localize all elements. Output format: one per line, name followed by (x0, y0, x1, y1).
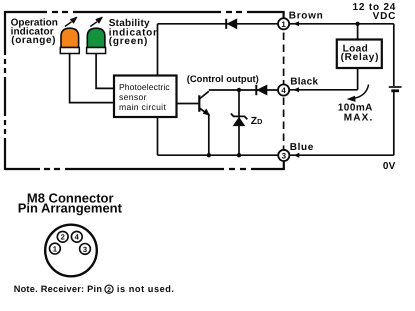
junction at load lead (355, 22, 359, 26)
svg-text:2: 2 (107, 287, 111, 294)
zener diode ZD (231, 88, 247, 158)
wire: black output line (289, 87, 357, 92)
sensor boundary: right stub from terminal 3 to bottom (283, 162, 285, 170)
svg-text:VDC: VDC (373, 11, 397, 22)
svg-text:1: 1 (281, 20, 286, 29)
wire: green LED lead (96, 54, 114, 89)
terminal 4 (278, 84, 289, 95)
M8 connector face (45, 225, 97, 277)
emitter wire down (208, 114, 210, 155)
svg-text:2: 2 (61, 233, 65, 242)
pin 1 (50, 243, 61, 254)
cathode bar with bent ends (231, 114, 247, 120)
wire: brown supply line (289, 21, 393, 26)
svg-text:ZD: ZD (251, 116, 263, 127)
connector dashed line terminal 4 to 3 (283, 98, 285, 150)
svg-text:Black: Black (290, 76, 318, 87)
wire: orange LED lead (70, 54, 114, 103)
wire: blue 0V line (290, 153, 394, 158)
arrowhead toward terminal 1 (293, 21, 299, 26)
emission arrow of green LED (90, 22, 97, 27)
transistor Q1 (NPN output) (177, 91, 212, 157)
note: Receiver: Pin 2 is not used. (14, 284, 175, 294)
svg-text:(green): (green) (109, 36, 149, 47)
svg-text:Blue: Blue (290, 142, 314, 153)
junction at control rail (237, 88, 241, 92)
junction at emitter/bottom rail (207, 153, 211, 157)
battery BT1 (389, 24, 402, 155)
svg-text:sensor: sensor (119, 92, 147, 102)
svg-text:4: 4 (281, 86, 286, 95)
terminal 3 (278, 150, 289, 161)
svg-text:3: 3 (83, 245, 87, 254)
svg-text:is not used.: is not used. (117, 284, 175, 294)
svg-text:3: 3 (282, 151, 287, 160)
sensor boundary: left chain line (4, 11, 6, 170)
base bar (198, 95, 200, 112)
sensor boundary: top chain line (5, 11, 285, 13)
sensor boundary: right stub to terminal 1 (283, 12, 285, 18)
svg-text:0V: 0V (383, 161, 396, 172)
terminal 1 (278, 18, 289, 29)
wire: inner bottom rail (158, 154, 280, 156)
pin 2 (57, 231, 68, 242)
LED stability indicator (green) (87, 17, 106, 53)
load (relay) box (337, 24, 382, 90)
diode D1 reverse-polarity protection on top rail (226, 19, 237, 29)
connector dashed line terminal 1 to 4 (283, 33, 285, 84)
anode triangle pointing up (233, 118, 244, 126)
svg-text:MAX.: MAX. (344, 113, 374, 124)
wire: inner top rail (158, 23, 279, 25)
arrowhead toward terminal 3 (294, 153, 300, 158)
current arrow 100mA (355, 85, 369, 99)
sensor boundary: bottom chain line (5, 168, 285, 170)
pin 3 (80, 244, 91, 255)
photoelectric sensor main circuit box (114, 76, 177, 118)
diode D2 on control output rail (256, 85, 267, 95)
svg-text:Photoelectric: Photoelectric (119, 82, 170, 92)
svg-text:Brown: Brown (289, 10, 324, 21)
arrowhead toward terminal 4 (293, 87, 299, 92)
wire: control output rail (209, 89, 278, 91)
svg-text:(Control output): (Control output) (187, 73, 259, 84)
svg-text:main circuit: main circuit (119, 102, 166, 112)
svg-text:Pin Arrangement: Pin Arrangement (18, 200, 123, 215)
base wire (177, 103, 200, 105)
svg-text:(Relay): (Relay) (341, 52, 380, 63)
wire: inner left rail upper (157, 24, 159, 76)
pin 4 (71, 231, 82, 242)
svg-text:Note. Receiver: Pin: Note. Receiver: Pin (14, 284, 103, 294)
LED operation indicator (orange) (60, 17, 79, 53)
emitter with arrow (199, 108, 209, 115)
junction at bottom rail (237, 153, 241, 157)
svg-text:(orange): (orange) (11, 35, 56, 46)
collector (199, 91, 209, 99)
emission arrow of orange LED (65, 22, 72, 27)
wire: inner left rail lower (157, 117, 159, 156)
